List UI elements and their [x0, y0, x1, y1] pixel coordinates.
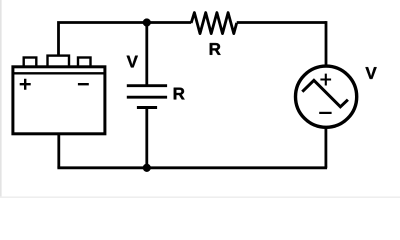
- battery plus sign: [20, 79, 31, 90]
- battery BT1 tab right: [78, 58, 91, 68]
- wire source bottom to rail: [324, 127, 327, 168]
- wire mid branch upper: [145, 23, 148, 86]
- label V (capacitor): [127, 56, 138, 68]
- label R (capacitor): [174, 88, 185, 100]
- source minus sign: [319, 112, 331, 114]
- wire top rail right: [237, 21, 326, 24]
- capacitor plate 1: [127, 84, 167, 87]
- wire battery top to rail: [59, 23, 192, 58]
- capacitor plate 2: [127, 96, 167, 99]
- capacitor plate 3 (short): [137, 106, 157, 109]
- resistor R1 zigzag: [191, 13, 237, 34]
- battery minus sign: [78, 83, 89, 85]
- battery BT1 body: [13, 67, 105, 134]
- node junction dot top: [143, 19, 151, 27]
- source sawtooth waveform: [302, 80, 348, 107]
- battery BT1 tab middle: [48, 56, 70, 67]
- source plus sign: [320, 74, 331, 86]
- source U1 circle: [296, 66, 357, 127]
- wire bottom rail: [57, 166, 327, 169]
- battery BT1 inner strip line: [13, 72, 105, 74]
- label V (source): [366, 67, 377, 79]
- wire rail corner down to source: [325, 21, 328, 67]
- node junction dot bottom: [143, 164, 151, 172]
- wire mid branch lower: [145, 108, 148, 168]
- battery BT1 tab left: [24, 58, 37, 68]
- wire battery bottom to rail: [57, 134, 60, 168]
- label R (resistor): [210, 43, 221, 55]
